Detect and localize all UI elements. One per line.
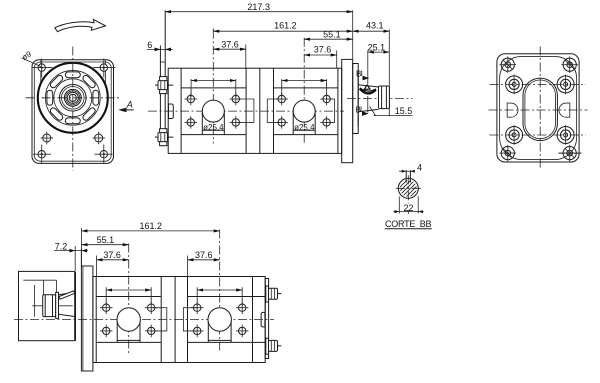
shaft nut [379, 86, 390, 109]
svg-text:6: 6 [147, 40, 152, 50]
corner hole BR [559, 145, 582, 162]
mid bolt left [41, 132, 54, 145]
port1 bore circle [117, 308, 140, 331]
horizontal centerline upper bolts [490, 83, 587, 85]
svg-text:B: B [356, 106, 361, 115]
section line e [337, 68, 339, 153]
dim 37.6 bottom first [97, 250, 129, 276]
REAR-VIEW-GROUP [489, 47, 588, 170]
front thin plate [160, 10, 165, 146]
dim 55.1 [304, 30, 353, 40]
svg-text:4: 4 [417, 162, 422, 172]
stud bolt upper right [266, 286, 282, 302]
port2 bolt span lines [282, 79, 327, 97]
key slot sides [406, 170, 410, 182]
section mark B bottom [356, 106, 369, 116]
bracket between sections right [267, 99, 282, 122]
svg-text:25.1: 25.1 [368, 42, 386, 52]
port block2 top line [188, 296, 266, 298]
port1 bore circle [202, 100, 224, 122]
boss side edge left [40, 60, 42, 84]
section line e [252, 277, 254, 363]
dim 22 [394, 197, 424, 214]
bearing boss outer circle [38, 63, 108, 133]
TOP-VIEW-GROUP [147, 2, 413, 163]
web outer ring [45, 70, 100, 125]
relief tab on left edge [169, 104, 174, 119]
port2 boss walls [293, 111, 315, 135]
web inner ring [54, 79, 92, 117]
section line b [245, 68, 247, 153]
corner hole TL [32, 59, 53, 78]
stud bolt lower left [155, 129, 173, 146]
dim 43.1 [353, 21, 390, 116]
dim 37.6 bottom second [188, 250, 220, 276]
flange plate outline [32, 60, 114, 164]
vertical centerline [539, 47, 541, 170]
section line c [259, 68, 261, 153]
dim 217.3 [165, 2, 353, 59]
shaft section hatch [390, 169, 424, 211]
shaft centerline [347, 97, 413, 99]
svg-text:ø25.4: ø25.4 [203, 123, 224, 132]
svg-text:37.6: 37.6 [221, 39, 239, 49]
label dia 9 with leader [20, 49, 41, 66]
svg-text:43.1: 43.1 [366, 21, 384, 31]
corner hole BL [33, 145, 51, 164]
port block2 top line [274, 87, 338, 89]
block inner vertical b [43, 280, 45, 295]
corner hole TR [93, 59, 115, 78]
rear thin plate [265, 279, 268, 359]
flange inner boss outline [34, 62, 111, 161]
center obround port [523, 78, 557, 141]
port2 boss [208, 320, 231, 343]
horizontal centerline lower bolts [490, 134, 587, 136]
key tab [59, 291, 75, 299]
main horizontal centerline [148, 110, 344, 112]
port2 centerline [219, 230, 221, 352]
svg-text:CORTE BB: CORTE BB [385, 219, 432, 229]
casting outline [500, 56, 577, 159]
port1 boss [117, 320, 140, 343]
dim 37.6 first [213, 39, 246, 68]
dim 7.2 [54, 241, 88, 271]
section line a [95, 277, 97, 363]
boss bolt LR [557, 125, 574, 145]
port2 bolt span lines [197, 287, 242, 305]
mid bolt right [93, 132, 106, 145]
right notch [559, 103, 570, 117]
view label A arrow [118, 99, 134, 112]
svg-text:7.2: 7.2 [55, 241, 68, 251]
svg-text:161.2: 161.2 [274, 21, 297, 31]
svg-text:ø25.4: ø25.4 [294, 123, 315, 132]
rear mounting plate [342, 59, 353, 162]
port block2 bottom line [274, 134, 338, 136]
mounting plate [81, 266, 93, 371]
svg-text:37.6: 37.6 [195, 250, 213, 260]
port1 centerline [212, 30, 214, 144]
port block1 bottom line [96, 341, 161, 343]
front thin plate [76, 249, 82, 341]
boss bolt LL [506, 125, 523, 145]
block inner vertical c [56, 280, 58, 292]
tapered shaft [358, 85, 378, 112]
section line b [160, 277, 162, 363]
boss bolt UR [557, 75, 574, 95]
svg-text:55.1: 55.1 [97, 235, 115, 245]
shaft section outer circle [398, 178, 418, 198]
main horizontal centerline [14, 319, 274, 321]
port1 boss walls [202, 111, 224, 135]
dim 4 key width [399, 162, 422, 172]
dim 25.1 [368, 42, 390, 112]
tapered shaft [59, 292, 76, 316]
port2 bore circle [208, 308, 231, 331]
horizontal centerline middle [489, 109, 588, 111]
dim 6 [147, 40, 173, 51]
svg-text:B: B [356, 70, 361, 79]
dim 161.2 [213, 21, 352, 32]
shaft axis line [32, 305, 72, 307]
port block2 bottom line [188, 341, 266, 343]
bracket between sections left [237, 99, 254, 122]
rotation arrow [55, 19, 106, 31]
SECTION-BB-GROUP [385, 162, 432, 229]
svg-text:37.6: 37.6 [103, 250, 121, 260]
bracket between sections left [152, 308, 167, 331]
pump body outline [168, 68, 342, 153]
svg-text:161.2: 161.2 [140, 221, 163, 231]
port block1 bottom line [181, 134, 246, 136]
BOTTOM-VIEW-GROUP [14, 221, 281, 371]
FRONT-VIEW-GROUP [20, 19, 134, 170]
hub circle set [60, 85, 87, 112]
stud bolt upper left [155, 77, 173, 94]
horizontal centerline [26, 97, 121, 99]
section line c [174, 277, 176, 363]
boss bolt UL [506, 75, 523, 95]
relief tab on right edge [261, 312, 265, 327]
port2 centerline [303, 38, 305, 144]
shaft housing block [19, 271, 75, 340]
stud bolt lower right [266, 338, 282, 354]
shaft nut [43, 295, 56, 317]
section mark B top [356, 70, 369, 81]
port1 bolt span lines [191, 79, 236, 97]
svg-text:37.6: 37.6 [314, 45, 332, 55]
svg-text:22: 22 [403, 203, 413, 213]
dim 37.6 second [304, 45, 337, 69]
block inner vertical a [34, 285, 36, 317]
svg-text:217.3: 217.3 [247, 2, 270, 12]
svg-text:15.5: 15.5 [395, 106, 413, 116]
port2 bolt holes [191, 301, 249, 337]
bearing boss [353, 64, 359, 134]
corner hole TR [561, 56, 578, 73]
port2 bore circle [293, 100, 315, 122]
port block1 top line [96, 296, 161, 298]
port1 bolt holes [100, 301, 158, 337]
corner hole BL [500, 145, 517, 162]
pump body outline [93, 277, 265, 363]
svg-text:55.1: 55.1 [323, 30, 341, 40]
bracket between sections right [183, 308, 198, 331]
corner hole BR [95, 145, 113, 164]
section centerlines [396, 175, 421, 214]
section line a [180, 68, 182, 153]
dim 55.1 bottom [82, 235, 129, 245]
block inner line [23, 279, 56, 281]
corner hole TL [500, 56, 517, 73]
web cutouts [47, 72, 99, 124]
woodruff key washer [360, 85, 376, 94]
dim 15.5 [370, 106, 413, 116]
svg-text:A: A [126, 99, 133, 109]
port2 bolt holes [275, 93, 333, 129]
port1 bolt holes [185, 93, 243, 129]
section title CORTE BB [385, 219, 432, 229]
bracket right of port2 [327, 99, 335, 122]
shaft washer [56, 292, 59, 318]
vertical centerline [72, 47, 74, 171]
port1 centerline [128, 244, 130, 355]
boss side edge right [104, 60, 106, 85]
port1 bolt span lines [106, 287, 151, 305]
left notch [507, 103, 518, 117]
section line d [273, 68, 275, 153]
rear cover outline [497, 54, 579, 162]
port block1 top line [181, 87, 246, 89]
dim 161.2 bottom [82, 221, 220, 265]
section line d [187, 277, 189, 363]
